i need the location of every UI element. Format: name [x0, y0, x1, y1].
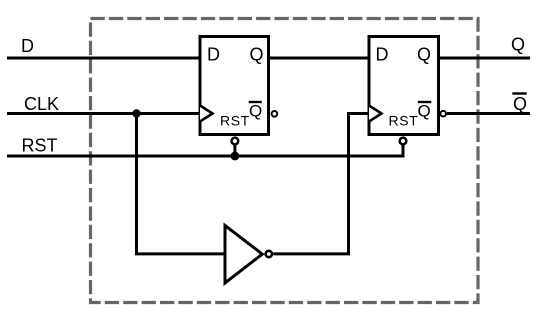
- FF2 clock triangle: [369, 106, 382, 122]
- FF1 Q-bar inversion bubble: [272, 111, 278, 117]
- svg-text:Q: Q: [513, 94, 527, 114]
- FF1 clock triangle: [200, 106, 213, 122]
- svg-text:D: D: [21, 36, 34, 56]
- junction: RST node at FF1: [231, 152, 240, 161]
- svg-text:Q: Q: [511, 35, 525, 55]
- svg-text:Q: Q: [418, 102, 431, 121]
- wire: FF2.Q to output Q: [439, 57, 531, 60]
- wire: FF1.Q to FF2.D: [269, 57, 370, 60]
- FF1 RST inversion bubble: [232, 138, 239, 145]
- wire: FF2.Qbar to output Q-bar: [447, 112, 530, 115]
- svg-text:D: D: [376, 45, 389, 65]
- junction: CLK tap node: [132, 109, 140, 117]
- FF2 Q-bar inversion bubble: [440, 111, 446, 117]
- svg-text:Q: Q: [249, 102, 262, 121]
- FF2 RST inversion bubble: [400, 138, 407, 145]
- svg-text:CLK: CLK: [24, 94, 59, 114]
- svg-text:RST: RST: [389, 112, 419, 128]
- wire: FF1 reset stub: [233, 145, 236, 156]
- wire: CLK tap down to inverter input: [137, 114, 226, 254]
- port label Q-bar: [512, 94, 527, 115]
- svg-text:D: D: [207, 45, 220, 65]
- inverter U3: [225, 225, 272, 283]
- wire: RST input running to FF2 reset stub: [7, 145, 403, 156]
- module boundary (dashed box): [91, 19, 479, 303]
- svg-text:RST: RST: [22, 136, 58, 156]
- D flip-flop FF2: [369, 37, 446, 145]
- wire: CLK input to FF1 clock: [7, 112, 200, 115]
- svg-text:Q: Q: [250, 45, 264, 65]
- D flip-flop FF1: [200, 37, 277, 145]
- svg-text:Q: Q: [417, 45, 431, 65]
- inverter output bubble: [266, 251, 272, 257]
- wire: inverter output up to FF2 clock: [273, 114, 369, 254]
- wire: D input to FF1.D: [7, 57, 200, 60]
- svg-text:RST: RST: [220, 112, 250, 128]
